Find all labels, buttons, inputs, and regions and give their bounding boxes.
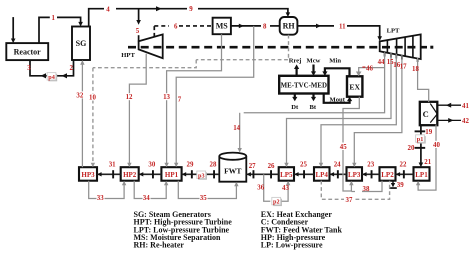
node 18 [412, 66, 419, 73]
heat exchanger EX [347, 76, 362, 96]
ME-TVC-MED unit [279, 76, 328, 94]
feedwater line LP3-LP4 [330, 170, 347, 178]
svg-text:Dt: Dt [291, 104, 299, 111]
node 6 [174, 23, 178, 30]
svg-text:21: 21 [424, 159, 431, 166]
svg-text:30: 30 [148, 161, 155, 168]
node 14 [233, 125, 240, 132]
wire 32 HP3 to SG [80, 60, 84, 167]
svg-text:Rrej: Rrej [289, 58, 302, 65]
wire 16 LPT extraction to LP4 [319, 54, 397, 167]
svg-text:MS: MS [216, 22, 229, 31]
heater HP1 [161, 167, 181, 181]
wire 38 LP2 drain to LP3 [351, 181, 382, 192]
label Mout [330, 97, 346, 104]
node 23 [367, 161, 374, 168]
svg-text:22: 22 [400, 161, 407, 168]
svg-text:C: C [423, 109, 429, 119]
wire 13 MS drain to HP1 [164, 34, 221, 167]
heater HP3 [79, 167, 97, 181]
node 42 [462, 118, 469, 125]
svg-text:HP1: HP1 [165, 171, 179, 179]
heater LP2 [380, 167, 396, 181]
wire Mout MED to EX [324, 94, 353, 103]
svg-text:45: 45 [340, 144, 347, 151]
svg-text:p2: p2 [273, 199, 280, 206]
svg-text:LP4: LP4 [315, 171, 328, 179]
moisture separator MS [213, 18, 231, 35]
node 16 [393, 62, 400, 69]
node 10 [89, 94, 97, 102]
node 9 [187, 6, 198, 14]
re-heater RH [280, 17, 298, 35]
svg-text:36: 36 [257, 185, 264, 192]
wire 43 p2 to LP5 [282, 181, 291, 202]
wire 33 HP3 drain to HP2 [89, 181, 127, 199]
valve p3 [197, 171, 207, 180]
svg-text:5: 5 [136, 28, 140, 35]
svg-text:33: 33 [97, 195, 104, 202]
node 24 [334, 161, 341, 168]
wire 12 HPT extraction to HP2 [127, 54, 146, 168]
svg-text:Min: Min [329, 58, 341, 65]
node 28 [210, 161, 217, 168]
svg-text:12: 12 [126, 94, 133, 101]
svg-text:41: 41 [462, 103, 469, 110]
svg-text:19: 19 [425, 129, 432, 136]
node 39 [397, 182, 404, 189]
svg-text:Mcw: Mcw [307, 58, 321, 65]
wire 40 condenser to LP1 [416, 125, 436, 191]
feedwater line HP1-HP2 [139, 170, 162, 178]
svg-text:25: 25 [300, 161, 307, 168]
heater LP4 [314, 167, 330, 181]
svg-text:LP3: LP3 [348, 171, 361, 179]
svg-text:HP2: HP2 [123, 171, 137, 179]
node 38 [363, 186, 370, 193]
wire 37 LP4-LP2 dashed [321, 181, 389, 200]
node 33 [97, 194, 105, 203]
svg-text:p3: p3 [198, 172, 205, 179]
wire 17 LPT extraction to LP3 [352, 55, 402, 167]
wire 4 SG to top header [89, 6, 291, 26]
svg-text:p4: p4 [48, 74, 55, 81]
wire Rrej out of MED [294, 64, 299, 75]
svg-text:HP3: HP3 [81, 171, 95, 179]
wire 35 HP1 drain to FWT [178, 181, 238, 199]
svg-text:Mout: Mout [330, 97, 346, 104]
feedwater line FWT-HP1 [182, 170, 220, 178]
svg-text:46: 46 [366, 65, 373, 72]
svg-text:38: 38 [363, 186, 370, 193]
node 8 [263, 23, 267, 30]
node 46 [362, 65, 373, 72]
svg-text:37: 37 [346, 197, 353, 204]
svg-text:LP: Low-pressure: LP: Low-pressure [261, 241, 323, 250]
shaft [128, 46, 427, 49]
wire Mcw into MED [311, 65, 316, 76]
node 36 [257, 185, 264, 192]
node 4 [104, 6, 116, 14]
node 25 [300, 161, 307, 168]
svg-text:43: 43 [282, 185, 289, 192]
turbine LPT [380, 28, 421, 60]
wire 7 line-8 tap to HP1 [174, 26, 254, 167]
svg-text:14: 14 [233, 125, 240, 132]
wire reactor inlet stub [11, 17, 16, 43]
valve p4 [47, 73, 57, 82]
wire 15 LPT extraction to LP5 [284, 53, 391, 167]
svg-text:18: 18 [412, 66, 419, 73]
heater LP1 [414, 167, 430, 181]
label Dt [291, 104, 299, 111]
wire 39 LP2 blowdown [389, 181, 397, 189]
svg-text:28: 28 [210, 161, 217, 168]
node 27 [249, 163, 256, 170]
svg-text:LP1: LP1 [415, 171, 428, 179]
wire 3 reactor drain [30, 60, 74, 78]
node 12 [125, 93, 133, 101]
wire 6 HPT to MS (dashed) [154, 23, 212, 37]
svg-text:35: 35 [200, 195, 207, 202]
legend right column [261, 210, 343, 249]
wire Bt out [311, 94, 316, 102]
feed water tank FWT [219, 153, 246, 182]
wire 41 cooling water in [437, 103, 461, 108]
svg-text:17: 17 [400, 63, 407, 70]
svg-text:6: 6 [174, 23, 178, 30]
node 41 [462, 103, 469, 110]
wire 45 EX drain to LP3 [343, 97, 359, 191]
svg-text:SG: SG [76, 39, 87, 48]
wire 10 RH drain to HP3 (dashed) [93, 35, 289, 164]
svg-text:27: 27 [249, 163, 256, 170]
node 17 [400, 63, 407, 70]
node 13 [163, 93, 171, 101]
svg-text:29: 29 [187, 161, 194, 168]
svg-text:RH: Re-heater: RH: Re-heater [134, 241, 185, 250]
feedwater line LP1-LP2 [396, 170, 414, 178]
steam generator SG [72, 27, 90, 61]
node 44 [378, 59, 385, 66]
wire 1 reactor to SG [39, 17, 83, 43]
node 43 [282, 185, 289, 192]
svg-text:13: 13 [163, 94, 170, 101]
wire 8 MS to RH [231, 24, 280, 29]
svg-text:7: 7 [178, 96, 182, 103]
node 7 [178, 96, 182, 103]
heater LP3 [347, 167, 363, 181]
svg-text:31: 31 [109, 161, 116, 168]
svg-text:32: 32 [76, 92, 83, 99]
label Min [329, 58, 341, 65]
svg-text:3: 3 [27, 65, 31, 72]
label Rrej [289, 58, 302, 65]
wire 5 header to HPT [136, 9, 141, 42]
svg-text:HPT: HPT [121, 52, 135, 59]
node 2 [70, 65, 74, 72]
wire 44 LPT extraction to EX and FWT [244, 52, 385, 113]
node 3 [27, 65, 31, 72]
wire 19-20-21 condenser drain to LP1 [415, 125, 426, 168]
node 1 [50, 14, 57, 22]
wire Dt out [292, 94, 297, 102]
svg-text:9: 9 [189, 6, 193, 13]
svg-text:LP5: LP5 [280, 171, 293, 179]
svg-text:11: 11 [339, 23, 346, 30]
node 26 [268, 163, 275, 170]
node 34 [143, 194, 151, 203]
svg-text:Reactor: Reactor [14, 47, 42, 56]
wire 42 cooling water out [437, 118, 461, 123]
svg-text:42: 42 [462, 118, 469, 125]
svg-text:LP2: LP2 [381, 171, 394, 179]
node 29 [187, 161, 194, 168]
node 35 [200, 194, 208, 203]
node 31 [109, 161, 116, 168]
svg-text:39: 39 [397, 182, 404, 189]
node 45 [340, 143, 348, 152]
reactor [6, 43, 48, 60]
wire 36 feedwater tap to p2 [264, 174, 271, 201]
svg-text:44: 44 [378, 59, 385, 66]
svg-text:EX: EX [349, 82, 360, 91]
heater LP5 [279, 167, 294, 181]
shaft end dot [430, 46, 433, 49]
svg-text:LPT: LPT [387, 28, 400, 35]
LPT extraction stubs [385, 52, 418, 62]
node 22 [400, 161, 407, 168]
heater HP2 [121, 167, 139, 181]
wire 14 into FWT [238, 113, 242, 153]
svg-text:FWT: FWT [224, 166, 241, 175]
node 15 [387, 59, 394, 66]
wire 11 RH to LPT [297, 24, 382, 41]
wire Min EX to MED [322, 68, 349, 76]
feedwater line LP4-LP5 [294, 170, 314, 178]
node 11 [339, 23, 346, 30]
svg-text:2: 2 [70, 65, 74, 72]
arrow 10 into HP3 [91, 163, 95, 167]
feedwater line LP2-LP3 [362, 170, 380, 178]
svg-text:23: 23 [367, 161, 374, 168]
node 20 [408, 145, 415, 152]
svg-text:40: 40 [433, 142, 440, 149]
wire 34 HP2 drain to HP1 [134, 181, 168, 199]
svg-text:1: 1 [52, 15, 56, 22]
svg-text:p1: p1 [417, 136, 424, 143]
condenser C [420, 102, 438, 125]
svg-text:24: 24 [334, 161, 341, 168]
node 40 [433, 141, 442, 149]
node 30 [148, 161, 155, 168]
svg-text:ME-TVC-MED: ME-TVC-MED [281, 83, 327, 90]
wire 18 LPT exhaust to condenser [418, 58, 429, 102]
feedwater line LP5-FWT [246, 170, 278, 178]
valve p2 [272, 197, 282, 206]
label Mcw [307, 58, 321, 65]
svg-text:Bt: Bt [310, 104, 317, 111]
turbine HPT [121, 34, 162, 59]
valve p1 [416, 135, 426, 144]
svg-text:10: 10 [89, 95, 96, 102]
svg-text:4: 4 [106, 7, 110, 14]
svg-text:8: 8 [263, 23, 267, 30]
node 37 [346, 197, 353, 204]
node 21 [424, 159, 431, 166]
node 19 [425, 129, 432, 136]
svg-text:RH: RH [283, 21, 296, 30]
feedwater line HP2-HP3 [97, 170, 121, 178]
svg-text:34: 34 [143, 195, 150, 202]
svg-text:20: 20 [408, 145, 415, 152]
node 5 [136, 28, 140, 35]
node 32 [76, 91, 84, 99]
svg-text:26: 26 [268, 163, 275, 170]
legend left column [134, 210, 233, 249]
label Bt [310, 104, 317, 111]
